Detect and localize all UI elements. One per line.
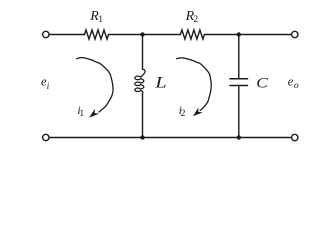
svg-text:e: e: [288, 74, 294, 88]
svg-text:1: 1: [79, 108, 84, 119]
svg-text:i: i: [47, 81, 50, 92]
svg-text:2: 2: [181, 108, 186, 119]
svg-text:L: L: [154, 74, 166, 91]
svg-text:C: C: [256, 75, 268, 91]
svg-text:2: 2: [193, 14, 198, 25]
svg-text:1: 1: [98, 14, 103, 25]
svg-text:o: o: [294, 80, 299, 91]
